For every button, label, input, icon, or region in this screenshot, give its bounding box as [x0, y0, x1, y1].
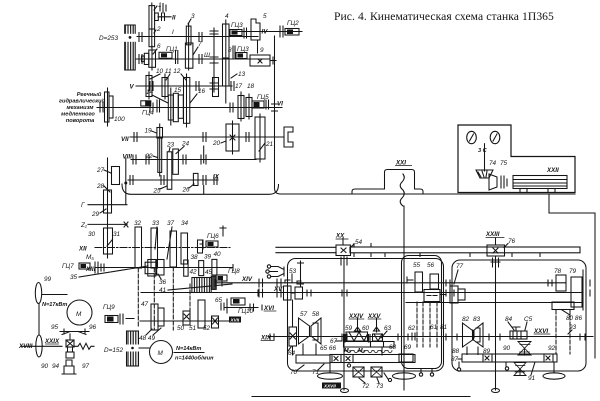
block 76 [485, 231, 516, 256]
svg-text:3 С: 3 С [478, 148, 488, 154]
labels 59-63 [320, 325, 416, 352]
svg-text:61: 61 [430, 324, 438, 331]
svg-text:28: 28 [96, 183, 105, 190]
shaded block 44 [211, 276, 216, 289]
shaft 50-52 [140, 320, 240, 322]
gear 43 [199, 261, 204, 276]
svg-text:ГЦ5: ГЦ5 [257, 94, 269, 101]
worm 59 60 [344, 325, 380, 354]
worm shaft column [292, 300, 294, 355]
gear 37 [167, 220, 177, 267]
svg-text:64: 64 [288, 350, 296, 357]
ticks rack bar [354, 244, 540, 257]
svg-text:97: 97 [82, 363, 90, 370]
wire right bend [549, 194, 595, 358]
shaft XIII [85, 266, 233, 273]
vertical shaft 53-XV [298, 261, 304, 287]
svg-text:45: 45 [205, 269, 213, 276]
svg-text:92: 92 [548, 345, 556, 352]
svg-text:VIII: VIII [123, 154, 133, 161]
shaft XIX [260, 335, 593, 342]
shaft IX [128, 174, 220, 181]
labels 48 49 [139, 328, 161, 342]
shaft XVI XVII labels [263, 305, 276, 312]
pulley D=253 [99, 25, 136, 70]
svg-text:XVIII: XVIII [18, 343, 33, 350]
svg-text:n=1440об/мин: n=1440об/мин [175, 355, 214, 362]
gear 7 [185, 41, 202, 68]
gear 45 [212, 259, 217, 275]
gear 22 sleeve [145, 138, 162, 172]
svg-text:77: 77 [456, 263, 464, 270]
svg-text:32: 32 [134, 220, 142, 227]
svg-text:58: 58 [312, 311, 320, 318]
svg-text:30: 30 [88, 231, 96, 238]
svg-text:Реечный: Реечный [77, 91, 102, 98]
svg-text:80 86: 80 86 [566, 315, 582, 322]
handwheel XXVII [318, 363, 343, 389]
hydraulic cylinder GC3 [230, 22, 247, 38]
gear 8 with cylinder GC3b [228, 46, 249, 59]
handwheel right [543, 362, 565, 379]
labels 88 89 90 [452, 345, 511, 355]
svg-text:XXII: XXII [546, 167, 559, 174]
shaft XVI stub [225, 307, 258, 309]
svg-text:М₅: М₅ [86, 254, 94, 261]
svg-text:N=14кВт: N=14кВт [176, 346, 201, 352]
svg-text:17: 17 [235, 83, 243, 90]
gear 100 rack pinion [105, 88, 126, 126]
bar 87 [451, 354, 557, 363]
svg-text:57: 57 [300, 311, 308, 318]
svg-text:96: 96 [89, 324, 97, 331]
shaft V [130, 84, 233, 91]
svg-text:XV: XV [273, 286, 283, 293]
shaft I [137, 29, 258, 37]
clutch block 9 [250, 47, 276, 66]
small circles under bar [347, 364, 391, 382]
svg-text:68: 68 [389, 344, 397, 351]
shaft G stub [81, 202, 127, 218]
svg-text:74: 74 [489, 160, 497, 167]
svg-text:63: 63 [384, 325, 392, 332]
svg-text:XIV: XIV [241, 276, 253, 283]
cone pulley 82 83 [462, 316, 483, 347]
svg-text:90: 90 [503, 345, 511, 352]
tag XVII black [229, 317, 241, 323]
svg-text:65 66: 65 66 [320, 345, 336, 352]
svg-text:XII: XII [78, 246, 87, 253]
svg-text:II: II [172, 15, 176, 22]
bearing ticks shafts [100, 33, 249, 185]
svg-text:2: 2 [156, 26, 161, 33]
cylinder GC5 [252, 94, 269, 109]
svg-text:82: 82 [462, 316, 470, 323]
housing P inner wall [402, 256, 442, 369]
svg-text:31: 31 [113, 231, 121, 238]
worm 63 [371, 334, 395, 353]
shaft XXIX [21, 338, 62, 346]
rack XXII [513, 167, 567, 193]
gear 2 [149, 26, 161, 47]
svg-text:N=17кВт: N=17кВт [42, 302, 67, 308]
label 77 [454, 263, 464, 284]
top right housing [458, 125, 575, 193]
coupling GC4 [141, 100, 160, 117]
feed bar long [312, 355, 415, 377]
motor 2 [150, 341, 173, 364]
svg-text:54: 54 [355, 239, 363, 246]
gears 38 39 40 [191, 251, 222, 261]
labels XXIV XXV [348, 313, 381, 320]
gear 4 and 13 [223, 13, 246, 103]
shaft VII [121, 136, 284, 143]
svg-text:ГЦ2: ГЦ2 [287, 20, 299, 27]
svg-text:34: 34 [181, 220, 189, 227]
label 35 leader [70, 266, 148, 281]
label 41 leader [159, 284, 232, 294]
bearing column x214 [210, 28, 218, 92]
wire vertical from IV to bed [275, 36, 281, 194]
svg-text:Z₁: Z₁ [80, 222, 87, 229]
svg-text:81: 81 [440, 324, 448, 331]
svg-text:XXIII: XXIII [485, 231, 500, 238]
svg-text:53: 53 [289, 268, 297, 275]
svg-text:62: 62 [408, 325, 416, 332]
gear 42 [184, 260, 188, 276]
svg-text:90: 90 [41, 363, 49, 370]
dashed columns P [417, 302, 437, 347]
tag XVIII [18, 343, 33, 350]
gear 64 [288, 327, 297, 357]
gear 51 [189, 300, 205, 332]
svg-text:40: 40 [214, 251, 222, 258]
shaft VIII [123, 154, 257, 161]
bevel gear 75 [489, 174, 507, 190]
gears 25 26 [153, 173, 199, 194]
labels 92 93 [548, 324, 577, 352]
svg-text:ГЦ9: ГЦ9 [103, 304, 115, 311]
left column gears 27 28 [96, 158, 127, 258]
vertical x583 [582, 270, 584, 310]
svg-text:47: 47 [141, 301, 149, 308]
svg-text:D=152: D=152 [104, 347, 123, 354]
cylinder GC7 [62, 263, 90, 270]
gear 77 [440, 286, 465, 303]
svg-text:ГЦ4: ГЦ4 [142, 110, 154, 117]
svg-text:99: 99 [44, 276, 52, 283]
bearing ticks long shafts [222, 279, 585, 340]
belt 57-58 vertical [303, 344, 316, 355]
svg-text:59: 59 [345, 325, 353, 332]
svg-text:М₃: М₃ [344, 348, 351, 354]
svg-text:М: М [76, 311, 82, 318]
dashed columns Q [556, 310, 570, 354]
svg-text:ГЦ8: ГЦ8 [228, 268, 240, 275]
svg-text:С5: С5 [524, 316, 533, 323]
lever 95 96 [51, 324, 97, 335]
shaft stubs XXIV XXV [358, 318, 383, 355]
svg-text:15: 15 [174, 87, 182, 94]
svg-text:М₄: М₄ [358, 348, 365, 354]
gear 38 [198, 240, 203, 253]
svg-text:19: 19 [145, 128, 153, 135]
motor 2 data [174, 346, 214, 362]
bearing on spindle column [272, 104, 278, 111]
housing Q [452, 260, 586, 371]
wire below 76 [491, 256, 500, 390]
svg-text:95: 95 [51, 324, 59, 331]
gear 6 [142, 43, 162, 70]
svg-text:поворота: поворота [66, 118, 94, 124]
svg-text:22: 22 [145, 153, 154, 160]
svg-text:75: 75 [500, 160, 508, 167]
svg-text:М: М [158, 350, 164, 357]
shaft VI [97, 101, 283, 108]
svg-text:Г: Г [81, 202, 85, 209]
svg-text:18: 18 [247, 83, 255, 90]
end studs of vertical wires [341, 369, 500, 393]
svg-text:ГЦ3: ГЦ3 [237, 46, 249, 53]
gear 36 block [145, 260, 166, 287]
clutch block 20 [212, 121, 239, 154]
svg-text:51: 51 [189, 325, 197, 332]
gears 17 18 [235, 83, 255, 121]
svg-text:42: 42 [190, 269, 198, 276]
svg-text:76: 76 [508, 238, 516, 245]
svg-text:29: 29 [91, 211, 100, 218]
hydraulic cylinder GC2 [280, 20, 299, 37]
svg-text:52: 52 [203, 325, 211, 332]
valve linkage 94 [66, 334, 74, 358]
spindle chuck [284, 127, 293, 147]
shaft Z1 stub [80, 222, 128, 229]
svg-text:5: 5 [263, 13, 267, 20]
gear 47 [141, 301, 164, 330]
svg-text:ГЦ7: ГЦ7 [62, 263, 74, 270]
bevel gear 74 [476, 170, 493, 178]
svg-text:50: 50 [177, 325, 185, 332]
block 69 [399, 344, 413, 362]
gear 5 axis [257, 41, 259, 53]
svg-text:91: 91 [528, 375, 536, 382]
headstock bottom bracket [122, 184, 279, 194]
svg-text:37: 37 [167, 220, 175, 227]
labels 62 61 81 [430, 324, 448, 331]
shaft 3C [478, 144, 488, 171]
gears 10 11 12 [146, 68, 186, 99]
svg-text:83: 83 [473, 316, 481, 323]
pedestal XXI [352, 160, 423, 195]
wire vertical x405 [403, 206, 405, 390]
axis stub to bed [204, 186, 226, 237]
pulley XVIII [36, 304, 42, 358]
cone pulley 57 58 [299, 311, 322, 344]
gears 14 15 16 [146, 74, 206, 127]
svg-text:13: 13 [238, 71, 246, 78]
svg-text:механизм: механизм [66, 105, 94, 111]
motor 1 [67, 300, 92, 325]
svg-text:36: 36 [159, 279, 167, 286]
worm gear 91 [514, 362, 536, 382]
svg-text:D=253: D=253 [99, 35, 118, 42]
svg-text:72: 72 [362, 383, 370, 390]
gear 33 [151, 220, 160, 268]
svg-text:9: 9 [260, 47, 264, 54]
pulley D=152 [104, 331, 150, 366]
svg-text:Ш: Ш [204, 52, 210, 59]
spring [74, 343, 94, 349]
clutch 53 [266, 265, 297, 282]
svg-text:60: 60 [362, 325, 370, 332]
gears 23 24 [166, 141, 190, 190]
bell 97 [41, 360, 90, 374]
svg-text:XXVII: XXVII [323, 384, 336, 389]
svg-text:4: 4 [225, 13, 229, 20]
gears 30 31 [88, 228, 121, 254]
dashed gear axes [138, 267, 190, 330]
svg-text:94: 94 [52, 363, 60, 370]
block 54 [335, 233, 363, 256]
clutch box 55-56 [424, 290, 440, 302]
svg-text:48 49: 48 49 [139, 335, 155, 342]
bed line [281, 193, 576, 195]
svg-text:ГЦ3: ГЦ3 [231, 22, 243, 29]
gear 56 [427, 262, 439, 289]
gear on V right [213, 78, 219, 97]
svg-text:35: 35 [70, 274, 78, 281]
svg-text:73: 73 [376, 383, 384, 390]
gear 50 [177, 311, 190, 332]
gear 3 [186, 13, 195, 70]
bearing eyes [467, 131, 500, 143]
coupling 65b [215, 297, 227, 313]
hourglass C5 [518, 342, 531, 356]
shaft XV long [141, 286, 583, 293]
svg-text:38: 38 [191, 254, 199, 261]
rack bar XX [276, 247, 580, 253]
worm 84 [505, 316, 533, 339]
svg-text:33: 33 [152, 220, 160, 227]
svg-text:87: 87 [451, 356, 459, 363]
shaft XII [78, 246, 230, 262]
gear 55 [407, 262, 423, 292]
svg-text:84: 84 [505, 316, 513, 323]
svg-text:21: 21 [265, 141, 274, 148]
gear 78 [548, 268, 566, 291]
gear 52 [203, 316, 219, 332]
bottom base line [252, 396, 470, 398]
svg-text:100: 100 [114, 116, 125, 123]
svg-text:I: I [172, 29, 174, 36]
svg-text:56: 56 [427, 262, 435, 269]
labels 74 75 [489, 160, 508, 167]
svg-text:ГЦ10: ГЦ10 [238, 308, 254, 315]
svg-text:IV: IV [262, 29, 269, 36]
bar 70 [290, 355, 330, 376]
gear 19 [145, 124, 163, 176]
svg-text:27: 27 [96, 167, 105, 174]
svg-text:Рис. 4. Кинематическая схема с: Рис. 4. Кинематическая схема станка 1П36… [334, 10, 554, 23]
hydraulic cylinder GC1 [159, 46, 178, 64]
svg-text:55: 55 [413, 262, 421, 269]
belt stems 82-83 [457, 347, 508, 371]
labels 61 81 left [0, 0, 1, 1]
cylinder GC9 [103, 304, 134, 324]
wire below 54 [341, 256, 347, 391]
svg-text:VII: VII [121, 136, 129, 143]
svg-text:69: 69 [404, 344, 412, 351]
shaft XIV [215, 265, 566, 287]
label XXVI [533, 328, 550, 335]
cylinder GC6 [200, 233, 219, 249]
striped clutch block 46 [192, 278, 211, 293]
left text block [59, 91, 105, 124]
svg-text:24: 24 [181, 141, 190, 148]
gear 5 [251, 13, 267, 40]
svg-text:ГЦ6: ГЦ6 [207, 233, 219, 240]
gear 79 [569, 268, 582, 307]
pulley 99 [35, 276, 67, 308]
housing P [288, 259, 444, 372]
gear 32 [134, 220, 142, 268]
shaft II stub [158, 4, 176, 22]
svg-text:79: 79 [569, 268, 577, 275]
svg-text:XVII: XVII [230, 318, 240, 323]
svg-text:39: 39 [204, 254, 212, 261]
svg-text:88: 88 [452, 348, 460, 355]
svg-text:8: 8 [228, 47, 232, 54]
gear 21 [255, 114, 274, 162]
worm boxes 72 73 [353, 367, 384, 390]
svg-text:78: 78 [554, 268, 562, 275]
gearset XV [284, 280, 303, 300]
handwheel right of 73 [393, 363, 416, 379]
block 80 86 [552, 302, 582, 322]
shaft III [136, 52, 270, 59]
clutch M5 [95, 262, 104, 273]
svg-text:медленного: медленного [61, 112, 95, 118]
gear 34 [181, 220, 189, 264]
flexible shaft squiggle [400, 174, 404, 206]
shaft IV [232, 29, 302, 36]
svg-text:гидравлический: гидравлический [59, 98, 105, 105]
cylinder GC10 [231, 298, 254, 315]
svg-text:20: 20 [212, 140, 221, 147]
labels 42 45 [190, 269, 213, 277]
gear 1 [149, 2, 162, 48]
cylinder GC8 [216, 268, 240, 281]
svg-text:XX: XX [335, 233, 345, 240]
bearing marks right shafts [586, 280, 590, 296]
shaft y302 right [406, 302, 583, 304]
